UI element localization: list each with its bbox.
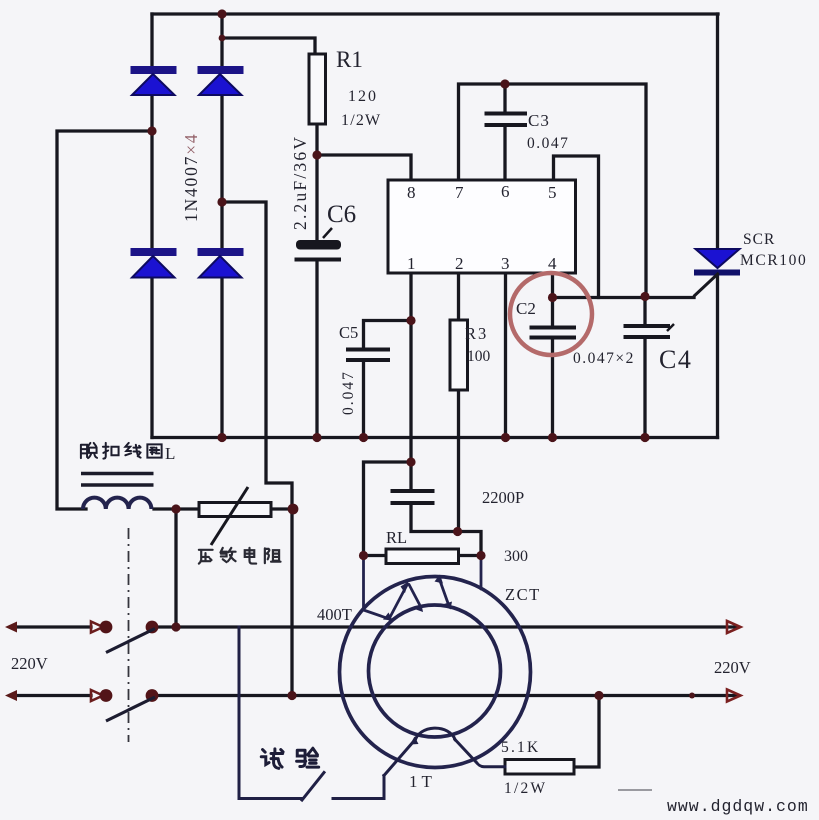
diode D1 xyxy=(131,66,177,95)
diode D3 xyxy=(131,248,177,278)
svg-text:C4: C4 xyxy=(659,345,692,374)
svg-text:4: 4 xyxy=(548,254,557,273)
highlight circle around C2 xyxy=(510,273,592,355)
svg-text:8: 8 xyxy=(407,183,416,202)
trip coil L windings xyxy=(83,498,151,509)
wire gate net pin4 to SCR gate xyxy=(553,296,695,299)
svg-text:2.2uF/36V: 2.2uF/36V xyxy=(290,135,310,230)
capacitor C2 plates xyxy=(530,328,577,338)
svg-text:1T: 1T xyxy=(409,772,436,791)
thyristor SCR MCR100 xyxy=(694,249,740,297)
label shiyan (test) xyxy=(261,748,318,768)
capacitor C6 plates xyxy=(295,228,342,260)
varistor RV body xyxy=(199,503,271,517)
svg-text:5.1K: 5.1K xyxy=(501,739,540,756)
wire upper mains left segment xyxy=(16,625,91,628)
wire C5 bottom lead to rail xyxy=(362,361,365,438)
mains left arrow lower xyxy=(5,690,17,701)
switch S1 upper blade xyxy=(106,629,155,653)
diode D2 xyxy=(198,66,244,95)
svg-text:C6: C6 xyxy=(327,201,356,228)
wire C3 top lead xyxy=(503,84,506,112)
svg-text:100: 100 xyxy=(467,348,491,365)
wire varistor left node down to upper mains xyxy=(174,509,177,627)
wire right drop to SCR anode xyxy=(716,14,719,249)
varistor RV arrow xyxy=(211,487,248,545)
wire RL left lead xyxy=(364,554,387,557)
svg-text:1N4007×4: 1N4007×4 xyxy=(181,133,201,222)
diode D4 xyxy=(198,248,244,278)
mains left arrow upper xyxy=(5,622,17,633)
svg-text:www.dgdqw.com: www.dgdqw.com xyxy=(667,797,809,816)
svg-text:400T: 400T xyxy=(317,605,352,624)
wire AC node A to left drop xyxy=(57,131,152,509)
wire C6 bottom lead to rail xyxy=(315,261,318,438)
wire C4 bottom lead to rail xyxy=(643,339,646,438)
capacitor 2200P plates xyxy=(391,491,435,503)
svg-text:3: 3 xyxy=(501,254,510,273)
wire AC node B to varistor right xyxy=(222,202,292,696)
svg-text:L: L xyxy=(165,444,175,463)
svg-text:C3: C3 xyxy=(528,111,550,130)
svg-text:ZCT: ZCT xyxy=(505,585,541,604)
test switch wire from upper mains xyxy=(239,627,505,800)
wire test switch to 1T winding xyxy=(333,742,414,799)
wire node R1/C6 to IC pin8 xyxy=(317,155,411,180)
transformer ZCT inner ring xyxy=(369,605,501,737)
svg-text:6: 6 xyxy=(501,182,510,201)
wire lower mains left segment xyxy=(16,694,91,697)
svg-text:SCR: SCR xyxy=(743,231,775,248)
small grey dash xyxy=(618,789,652,791)
svg-text:120: 120 xyxy=(348,88,378,105)
svg-text:R1: R1 xyxy=(336,47,363,72)
wire IC pin3 to rail xyxy=(504,273,507,438)
wire top positive rail xyxy=(152,12,718,15)
switch S1 upper pivot dot xyxy=(100,621,113,634)
winding 400T left lead xyxy=(362,556,365,611)
label yamin dianzu (varistor) xyxy=(199,548,281,564)
wire coil to varistor left lead xyxy=(154,507,199,510)
svg-text:220V: 220V xyxy=(11,654,48,673)
svg-text:C5: C5 xyxy=(339,323,358,342)
winding 400T right lead xyxy=(480,556,483,590)
wire bridge column1 middle xyxy=(150,95,153,248)
wire C2 bottom lead to rail xyxy=(551,339,554,438)
wire lower mains main segment xyxy=(152,694,737,697)
svg-text:2200P: 2200P xyxy=(482,488,524,507)
svg-text:1: 1 xyxy=(407,254,416,273)
wire RL right lead xyxy=(459,554,482,557)
svg-text:0.047×2: 0.047×2 xyxy=(573,350,635,367)
resistor 5.1K xyxy=(505,760,574,775)
svg-text:R3: R3 xyxy=(465,324,488,343)
svg-text:5: 5 xyxy=(548,183,557,202)
wire bottom negative rail xyxy=(152,436,718,439)
wire varistor right lead xyxy=(271,507,292,510)
svg-text:300: 300 xyxy=(504,548,528,565)
wire C6 top lead xyxy=(315,155,318,240)
IC U1 body xyxy=(388,180,576,273)
wire IC pin5 jog down right side xyxy=(554,156,599,298)
winding 1T loop xyxy=(415,728,455,741)
switch S1 upper right dot xyxy=(146,621,159,634)
wire C2 top lead xyxy=(551,298,554,327)
capacitor C5 plates xyxy=(346,350,390,361)
switch S1 lower fixed contact xyxy=(91,690,103,701)
resistor RL xyxy=(386,549,459,564)
resistor R3 xyxy=(450,320,468,390)
wire C3 bottom lead to pin6 xyxy=(503,127,506,180)
winding 400T turns xyxy=(364,610,389,619)
wire 5.1K right lead up to lower mains xyxy=(574,696,599,768)
wire SCR cathode to bottom rail xyxy=(716,275,719,438)
wire IC pin4 stub xyxy=(551,273,554,298)
wire C5 top lead from pin1 node xyxy=(364,321,412,349)
wire upper mains main segment xyxy=(152,625,737,628)
wire 2200P bottom lead to R3 node xyxy=(411,505,459,532)
svg-text:0.047: 0.047 xyxy=(527,135,569,152)
svg-text:0.047: 0.047 xyxy=(340,370,357,415)
wire 2200P node left branch down xyxy=(364,462,412,556)
mechanical linkage dash-dot line xyxy=(128,528,130,742)
switch S1 upper fixed contact xyxy=(91,622,103,633)
wire bridge column2 bottom xyxy=(220,278,223,438)
transformer ZCT outer ring xyxy=(340,577,531,768)
wire C4 top lead xyxy=(643,297,646,325)
svg-text:MCR100: MCR100 xyxy=(740,252,807,269)
label tuokouxianquan L (trip coil) xyxy=(81,443,162,459)
test switch blade xyxy=(302,773,324,801)
switch S1 lower right dot xyxy=(146,689,159,702)
wire 2200P top lead xyxy=(409,462,412,489)
svg-text:1/2W: 1/2W xyxy=(341,112,381,129)
mains right arrow upper xyxy=(727,621,741,633)
wire bridge column1 bottom xyxy=(150,278,153,438)
switch S1 lower pivot dot xyxy=(100,689,113,702)
wire bridge column2 top xyxy=(220,14,223,66)
wire R3 bottom through rail to node xyxy=(457,390,460,532)
wire bridge column2 middle xyxy=(220,95,223,248)
wire IC pin7 up over to C4 node xyxy=(459,84,647,297)
wire R1 bottom lead xyxy=(315,124,318,155)
wire R1 tap from column2 xyxy=(222,38,315,54)
wire IC pin2 to R3 xyxy=(457,273,460,320)
svg-text:1/2W: 1/2W xyxy=(504,780,547,797)
wire bridge column1 top xyxy=(150,14,153,66)
winding 400T arrowheads xyxy=(383,575,452,621)
svg-text:7: 7 xyxy=(455,183,464,202)
resistor R1 xyxy=(309,54,326,124)
svg-text:RL: RL xyxy=(386,528,407,547)
capacitor C3 plates xyxy=(485,114,528,126)
wire IC pin1 down through rail xyxy=(409,273,412,462)
svg-text:C2: C2 xyxy=(516,299,536,318)
svg-text:220V: 220V xyxy=(714,658,751,677)
mains right arrow lower xyxy=(727,690,741,702)
wire node to RL right lead xyxy=(459,532,482,556)
switch S1 lower blade xyxy=(106,697,155,721)
capacitor C4 plates xyxy=(624,324,675,337)
svg-text:2: 2 xyxy=(455,254,464,273)
winding 1T arrowhead xyxy=(410,737,419,745)
trip coil L core xyxy=(81,474,154,486)
